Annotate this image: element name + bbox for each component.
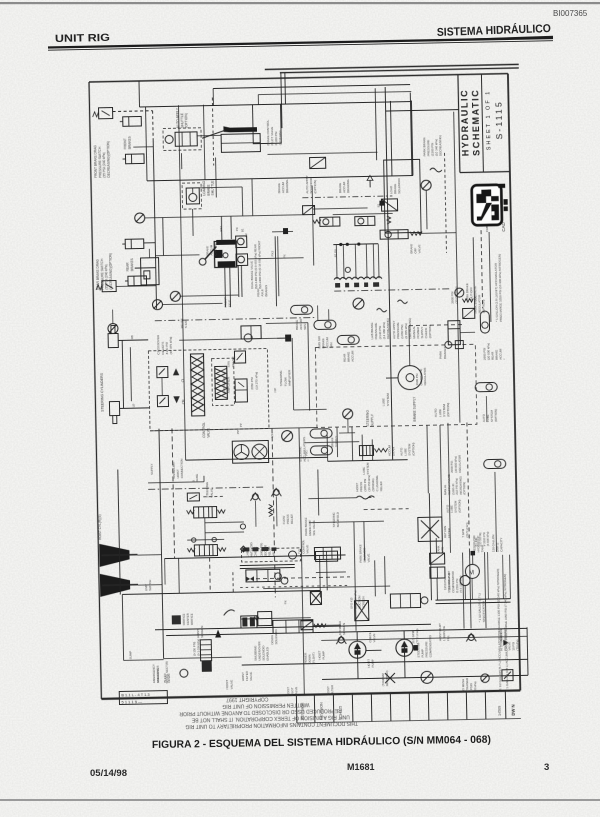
svg-text:SYSTEM: SYSTEM: [366, 462, 370, 475]
svg-text:COPYRIGHT 1997: COPYRIGHT 1997: [226, 696, 268, 703]
wire check drop 2: [275, 496, 278, 526]
label PP: [236, 430, 240, 434]
hoist pilot valve: [273, 620, 313, 634]
wire priority out: [266, 322, 308, 325]
label hoist pump 2: [367, 659, 375, 668]
wire left bus dashed top: [152, 111, 155, 139]
svg-text:SWITCH: SWITCH: [148, 580, 152, 591]
wire left return main: [159, 429, 164, 659]
svg-text:UNIT RIG: UNIT RIG: [55, 32, 110, 45]
label filler t16: [144, 580, 152, 591]
junction dots: [339, 242, 360, 246]
label 2900 regulator mid: [415, 368, 427, 386]
priority valve: [241, 326, 261, 342]
wire park brake 3: [460, 331, 475, 333]
svg-text:SCREEN: SCREEN: [361, 597, 365, 609]
wire shuttle drop: [215, 157, 218, 197]
shuttle valve loading brake: [186, 188, 199, 204]
rear brake cylinder upper: [122, 239, 144, 249]
spring lower left: [187, 548, 195, 552]
svg-text:BRAKING: BRAKING: [285, 179, 289, 193]
wire jog: [327, 457, 329, 461]
orifice mid: [223, 253, 228, 258]
label filler t13: [270, 629, 278, 644]
squiggle symbol: [430, 168, 442, 172]
wire accum to supply: [326, 435, 328, 457]
accumulator supply brake 3: [337, 335, 359, 344]
wire bv right link: [272, 230, 293, 232]
circle terminal: [240, 524, 245, 529]
wire brake supply vertical 2: [390, 101, 392, 176]
load brake solenoid valve: [379, 199, 397, 211]
svg-text:PX2: PX2: [271, 250, 275, 256]
park brake regulator valve: [380, 230, 408, 240]
wire drop f2: [251, 179, 254, 216]
label steering pump compensator: [447, 570, 463, 593]
spring park brake regulator: [410, 232, 422, 236]
wire v355: [361, 435, 364, 461]
label sump: [129, 651, 133, 660]
label filler t21: [362, 462, 370, 475]
label end cover: [156, 666, 160, 683]
label supply brake accum: [295, 318, 307, 330]
svg-text:SPECIFICATION: SPECIFICATION: [482, 601, 486, 622]
wire right to tank: [470, 552, 472, 628]
wire pilot out right: [313, 624, 341, 627]
wire y466: [328, 460, 408, 462]
wire tank return line: [242, 659, 528, 665]
wire dashdot y296: [334, 289, 449, 291]
svg-text:B2: B2: [244, 233, 248, 237]
label park brake emer sol: [304, 517, 316, 536]
wire front brakes to bus: [133, 146, 153, 148]
park brake dump solenoid valve 2: [355, 216, 375, 225]
label hoist valve: [225, 680, 233, 690]
label filler t20: [400, 442, 416, 455]
svg-text:ACCUMULATORS: ACCUMULATORS: [302, 437, 306, 462]
hoist pump: [349, 641, 366, 658]
gauge steering supply: [343, 409, 353, 419]
label filler t28: [130, 335, 134, 339]
wire hoist dash drop: [209, 558, 212, 593]
wire bus y99: [258, 92, 411, 95]
wavy pipe segment: [356, 496, 374, 499]
svg-text:(OPTION): (OPTION): [494, 409, 498, 422]
label steering flow amplifier: [279, 369, 292, 386]
svg-text:CHECK: CHECK: [253, 547, 257, 557]
svg-text:VALVE: VALVE: [249, 672, 253, 681]
wire sol valve down: [326, 561, 329, 590]
svg-text:(19 270 kPa): (19 270 kPa): [254, 372, 258, 390]
check valve bottom 2: [466, 633, 476, 641]
svg-text:SUPPLY: SUPPLY: [334, 436, 338, 447]
svg-text:SHUTTLE: SHUTTLE: [211, 180, 215, 196]
svg-text:PUMP: PUMP: [322, 651, 326, 660]
wire right f8: [489, 232, 491, 322]
wire gauge line: [145, 215, 313, 218]
circle pair: [274, 573, 288, 585]
label filler t2: [224, 297, 232, 307]
junction circle manifold: [345, 267, 350, 272]
label rear accum text: [343, 350, 355, 362]
steering cylinder upper: [108, 325, 148, 348]
dashed box loading shuttle: [182, 183, 202, 209]
wire shuttle to pilot valve: [197, 134, 221, 136]
svg-text:SCREEN: SCREEN: [200, 626, 204, 638]
svg-text:ENABLED: ENABLED: [265, 647, 269, 661]
label filler t15: [196, 626, 204, 638]
hoist cylinder upper wedge: [99, 543, 129, 567]
wire drop f1: [203, 105, 205, 180]
down spool valve: [258, 611, 272, 625]
svg-text:SRV.: SRV.: [303, 323, 307, 330]
wire x160 drop: [162, 218, 165, 256]
label flow press relief: [282, 514, 294, 525]
hoist raise spool hatched: [194, 507, 217, 518]
crossover relief valve upper: [157, 366, 180, 377]
wire hoist feed left: [118, 470, 121, 595]
label manual power supply: [412, 325, 432, 339]
wire filter feed: [428, 493, 430, 517]
label sec relief valve: [260, 543, 276, 557]
svg-text:STRAINER: STRAINER: [503, 628, 507, 642]
spring dump sol: [313, 220, 321, 224]
dashed box auto apply shuttle: [163, 128, 201, 151]
wire dashed x223: [232, 572, 234, 592]
pilot row labels: [242, 547, 276, 552]
label tandem mounted: [381, 670, 389, 686]
wire f29: [485, 396, 488, 422]
svg-text:HP: HP: [273, 388, 277, 392]
note accumulator 1: [496, 568, 502, 691]
label filler t5: [283, 254, 287, 258]
wire manifold drop: [365, 244, 368, 278]
wire f15: [384, 556, 387, 594]
dashed box hoist pilot row: [241, 548, 300, 562]
wire y527: [309, 521, 384, 523]
steering pump: [396, 639, 413, 656]
gauge rear brake pressure 2: [152, 300, 162, 310]
wire y515 dashed: [364, 508, 409, 511]
svg-text:(OPTION): (OPTION): [313, 180, 317, 194]
wire manifold drop: [354, 245, 357, 279]
svg-text:(20 000 kPa): (20 000 kPa): [454, 286, 458, 303]
wire y525: [205, 521, 244, 524]
wire accum 1 out: [339, 432, 355, 434]
wire amplifier feed: [179, 338, 277, 340]
wire hoist cyl 2: [138, 584, 162, 586]
wire gauge stub: [112, 310, 114, 324]
label filler t18: [305, 450, 309, 456]
label rear brake accum right: [491, 348, 507, 360]
dashed box steering control valve: [148, 348, 269, 430]
wire right f10: [463, 553, 465, 629]
wire right bus down: [473, 237, 474, 308]
gauge steering pressure: [282, 430, 293, 441]
wire lube line 2: [436, 602, 511, 604]
svg-text:FILTER: FILTER: [447, 528, 451, 538]
dashed box auto lube system: [315, 344, 477, 427]
wire amplifier right 2: [292, 338, 293, 410]
check valve bottom 1: [336, 636, 346, 644]
wire bv top 1: [220, 216, 223, 241]
wire manifold feed: [333, 243, 378, 246]
check valve anti void: [250, 493, 260, 501]
label 7 gpm: [461, 522, 469, 537]
label park brakes 2: [439, 346, 447, 359]
svg-text:PP: PP: [236, 430, 240, 434]
label LS: [270, 434, 274, 438]
shuttle valve auto apply: [165, 132, 197, 147]
label auto lube right: [446, 500, 462, 513]
svg-text:PUMP: PUMP: [371, 659, 375, 667]
label accum drain: [388, 444, 396, 456]
proprietary notice (upside down): [179, 694, 358, 730]
wire accum stub 1: [317, 305, 319, 320]
wire raise line: [148, 482, 204, 483]
compensator valve 1: [430, 553, 445, 564]
label filler t4: [271, 250, 275, 256]
wire gauge stub steering: [347, 419, 349, 433]
svg-text:PX1: PX1: [305, 450, 309, 456]
steering accumulator 2: [310, 446, 332, 455]
svg-text:VALVE: VALVE: [367, 553, 371, 562]
park brake solenoid valve 2: [315, 551, 337, 561]
label front brakes: [123, 136, 131, 149]
label filler t27: [180, 318, 188, 328]
wire brake supply horizontal: [186, 457, 328, 460]
wire lube dash line: [409, 325, 465, 326]
svg-text:(FLOAT): (FLOAT): [312, 653, 316, 664]
svg-text:(70 kPa): (70 kPa): [515, 640, 519, 651]
label filler t26: [239, 423, 243, 427]
svg-text:MTD: MTD: [441, 547, 445, 553]
front brake cylinder upper: [120, 116, 142, 126]
label steering manifold: [332, 512, 340, 528]
svg-text:AXLE: AXLE: [228, 300, 232, 308]
label filler t9: [472, 535, 484, 552]
svg-text:DECREASING)(OPTION): DECREASING)(OPTION): [106, 141, 111, 178]
spring relief mid: [269, 504, 273, 516]
label 2050 psi: [250, 372, 258, 390]
wire f25: [316, 571, 346, 574]
svg-text:VALVE: VALVE: [209, 488, 213, 498]
label B1 tag: [377, 203, 381, 207]
label brake accum braking left: [277, 179, 289, 193]
frame bottom border: [101, 690, 520, 698]
svg-text:3: 3: [544, 762, 549, 773]
label lube system: [381, 393, 389, 406]
label snubbing solenoid: [253, 641, 269, 661]
test block: [141, 258, 160, 285]
label hoist cylinders: [98, 514, 103, 540]
wire y213: [313, 208, 368, 209]
wire v365: [371, 439, 373, 460]
brake control pilot valve spool bar: [202, 126, 257, 139]
wire right dash bus: [467, 422, 470, 552]
label front brake accum: [317, 335, 333, 348]
wire hoist pump suction: [356, 632, 358, 641]
label filler t12: [338, 621, 346, 635]
page top scan edge: [0, 2, 600, 4]
wire between reliefs: [161, 378, 163, 396]
label filler t3: [256, 285, 268, 297]
svg-text:ACCUM: ACCUM: [499, 348, 503, 360]
wire hoist drop: [164, 559, 167, 585]
wire junction down: [472, 555, 474, 564]
label strainer spec: [461, 678, 477, 693]
drain check valve: [421, 671, 433, 683]
svg-text:SHEET 1 OF 1: SHEET 1 OF 1: [485, 90, 492, 151]
label anti void check: [245, 542, 257, 557]
header right underline: [436, 37, 553, 41]
note accumulator 3: [494, 254, 503, 322]
front brake cylinder lower: [122, 154, 144, 164]
wire right bus A: [456, 233, 460, 423]
frame left border: [89, 82, 101, 699]
svg-text:DOWN: DOWN: [167, 674, 171, 683]
wire y568: [240, 564, 295, 565]
wire x274 drop: [278, 236, 279, 296]
svg-text:CR: CR: [182, 399, 186, 404]
svg-text:(20 375 kPa): (20 375 kPa): [169, 337, 173, 355]
svg-text:(0-1 034 kPa): (0-1 034 kPa): [196, 639, 200, 656]
wire vertical x410: [410, 93, 412, 176]
dark valve block left: [241, 616, 257, 628]
park brake dump solenoid valve 1: [320, 217, 340, 226]
accumulator supply brake 2: [314, 320, 336, 329]
label PX2: [219, 226, 223, 232]
label brake accum braking: [338, 179, 350, 193]
label filler t10: [491, 534, 503, 552]
svg-text:CAPACITY: CAPACITY: [499, 537, 503, 551]
hoist lower spool hatched: [194, 545, 217, 556]
label filler t29: [132, 404, 136, 408]
wire y503 left: [308, 497, 356, 500]
label 2900 psi upper: [450, 286, 458, 303]
wire rear ps to bus: [116, 285, 156, 288]
label tg control valve: [297, 539, 309, 554]
label steering cylinders: [100, 372, 105, 412]
frame top border: [89, 74, 508, 82]
wire bv top 2: [230, 216, 232, 239]
label right note small: [478, 593, 486, 622]
wire right f5: [454, 112, 456, 233]
label HP: [273, 388, 277, 392]
wire hoist line y631: [155, 624, 431, 630]
svg-text:REGULATOR: REGULATOR: [458, 455, 462, 473]
wire left bus vertical: [153, 139, 156, 309]
hoist valve section 2: [314, 547, 340, 560]
label hoist press: [355, 475, 371, 492]
wire dashed x212: [212, 98, 213, 166]
wire loading shuttle down: [192, 209, 195, 236]
squiggle symbol 3: [397, 300, 407, 304]
wire right f11: [427, 425, 428, 493]
label gpm note: [411, 628, 419, 643]
svg-text:VALVE: VALVE: [294, 687, 298, 696]
svg-text:RB: RB: [130, 335, 134, 339]
label rear brake drag switch: [96, 253, 113, 290]
orifice circle 1: [191, 538, 195, 542]
svg-text:(2618 kPa): (2618 kPa): [278, 130, 282, 145]
wire center drop: [312, 186, 314, 266]
wire manifold drop: [342, 245, 345, 279]
wire right extra v1: [448, 423, 451, 553]
crossover relief valve lower: [157, 395, 180, 406]
label hoist filter: [326, 684, 334, 695]
wire y571: [240, 567, 295, 568]
spring lower right: [218, 548, 226, 552]
svg-text:DECREASING): DECREASING): [438, 135, 442, 156]
lube pump: [386, 365, 422, 390]
svg-text:HYDRAULIC: HYDRAULIC: [459, 89, 470, 157]
wire brake supply vertical: [385, 87, 392, 459]
bottom-left revision box: [119, 691, 167, 705]
label auto apply pressure: [392, 318, 412, 339]
svg-text:STEERING CYLINDERS: STEERING CYLINDERS: [100, 372, 105, 412]
label return filter: [443, 526, 451, 538]
return filter star box: [418, 517, 442, 541]
gauge front brake pressure: [135, 213, 145, 223]
hoist cylinder lower rod: [102, 584, 138, 587]
wire hoist top: [165, 557, 246, 559]
sheet number text: [485, 89, 504, 150]
label b1 px tags: [334, 249, 338, 257]
wire drop f4: [257, 95, 259, 105]
squiggle symbol 2: [377, 308, 387, 312]
label steering supply: [366, 410, 375, 427]
pump coupling block: [413, 645, 418, 651]
label auto apply shuttle: [176, 107, 189, 128]
label 2900 psi: [483, 343, 491, 360]
label high press relief: [499, 632, 519, 651]
frame right border: [508, 74, 520, 691]
wire rear brakes to bus: [144, 242, 155, 244]
label park brake pressure switch: [422, 135, 442, 156]
wire bus top rect upper: [140, 102, 412, 107]
svg-text:(OPTION): (OPTION): [184, 113, 188, 128]
svg-text:(6 900 kPa): (6 900 kPa): [486, 532, 490, 547]
brake valve port B1: [236, 254, 248, 266]
svg-text:DW N: DW N: [511, 704, 516, 715]
label lhb brake pressure: [370, 318, 390, 339]
wire dashed y590: [240, 585, 348, 587]
svg-text:05/14/98: 05/14/98: [90, 768, 127, 779]
wire dashdot y322: [155, 318, 315, 321]
svg-text:ACCUM: ACCUM: [351, 350, 355, 362]
svg-text:S 320: S 320: [184, 320, 188, 328]
svg-text:PX: PX: [283, 254, 287, 258]
box brake control pilot valve: [252, 104, 281, 144]
wire lube line 1: [435, 599, 510, 601]
arrow terminal bv: [283, 228, 288, 234]
wire f31: [502, 555, 505, 599]
label steering pump: [416, 635, 432, 657]
label park brake solenoid valve: [359, 544, 371, 563]
solid marker: [503, 640, 508, 646]
wire pump feed f13: [355, 557, 356, 631]
hoist spool hatched block: [200, 640, 212, 672]
hoist spool circle: [180, 669, 188, 677]
svg-text:B1: B1: [241, 228, 245, 232]
label filler t6: [244, 233, 248, 237]
svg-text:VALVE: VALVE: [271, 547, 275, 556]
svg-text:LB: LB: [132, 404, 136, 408]
wire lube pump drop: [464, 586, 466, 600]
wire hoist cyl 1: [138, 554, 162, 556]
svg-text:(OPTION): (OPTION): [428, 325, 432, 339]
